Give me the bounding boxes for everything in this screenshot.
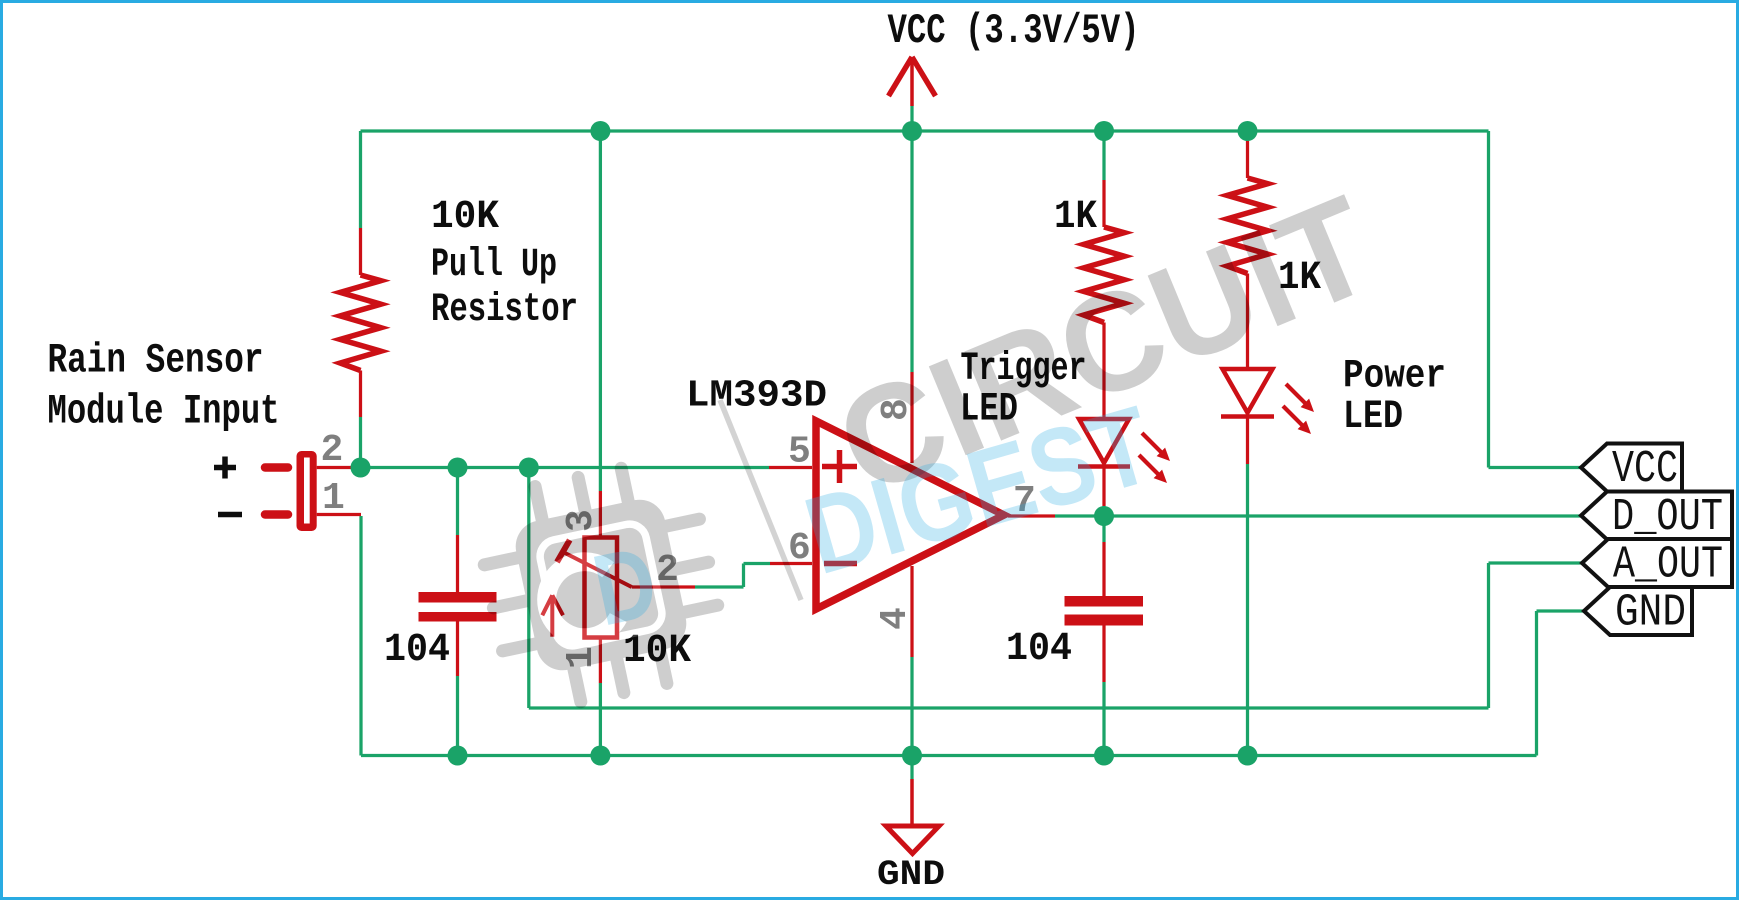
- svg-text:104: 104: [1006, 627, 1072, 672]
- svg-text:1K: 1K: [1054, 195, 1097, 240]
- svg-text:LED: LED: [1343, 395, 1403, 440]
- svg-text:104: 104: [384, 628, 450, 673]
- svg-text:A_OUT: A_OUT: [1613, 540, 1723, 591]
- svg-text:GND: GND: [877, 855, 945, 895]
- svg-text:Module Input: Module Input: [48, 388, 280, 436]
- svg-text:GND: GND: [1615, 588, 1686, 639]
- svg-text:Resistor: Resistor: [431, 288, 578, 333]
- svg-text:Power: Power: [1343, 355, 1446, 400]
- svg-text:Pull Up: Pull Up: [431, 243, 557, 288]
- svg-text:4: 4: [874, 607, 917, 630]
- svg-text:1: 1: [322, 477, 345, 520]
- svg-text:VCC (3.3V/5V): VCC (3.3V/5V): [888, 7, 1140, 55]
- svg-text:Rain Sensor: Rain Sensor: [48, 337, 264, 385]
- svg-text:VCC: VCC: [1612, 444, 1678, 495]
- svg-text:10K: 10K: [431, 195, 499, 240]
- svg-text:LM393D: LM393D: [686, 375, 827, 418]
- svg-text:5: 5: [788, 431, 811, 474]
- svg-text:2: 2: [321, 429, 344, 472]
- svg-text:D_OUT: D_OUT: [1612, 492, 1723, 543]
